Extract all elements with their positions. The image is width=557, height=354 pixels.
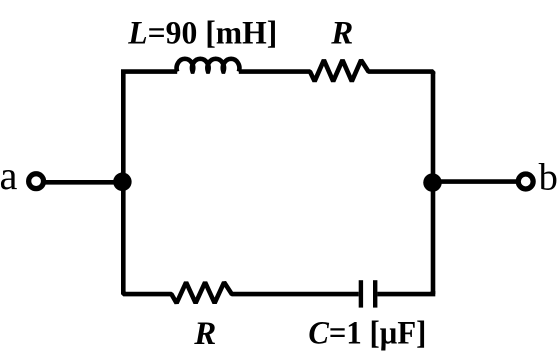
wire right vertical: [431, 72, 436, 295]
wire capacitor to right corner: [377, 291, 433, 294]
wire bottom segment, resistor R bottom zigzag, wire to capacitor: [123, 282, 358, 303]
wire left vertical: [121, 72, 126, 295]
svg-text:C=1 [µF]: C=1 [µF]: [308, 316, 426, 352]
svg-text:a: a: [0, 153, 18, 198]
svg-text:R: R: [330, 15, 353, 51]
capacitor C1 right plate: [373, 280, 377, 307]
svg-text:R: R: [193, 316, 216, 352]
node junction dot left: [113, 173, 131, 192]
capacitor C1 left plate: [359, 280, 363, 307]
wire terminal b stub: [436, 179, 516, 184]
svg-text:L=90 [mH]: L=90 [mH]: [127, 16, 277, 52]
terminal a open circle: [29, 174, 44, 189]
node junction dot right: [423, 173, 442, 192]
svg-text:b: b: [539, 157, 557, 199]
wire inductor to top resistor, resistor R top zigzag, wire to right corner: [239, 60, 433, 81]
wire top segment (left corner to inductor): [123, 72, 177, 74]
terminal b open circle: [518, 174, 533, 189]
wire terminal a stub: [45, 180, 120, 185]
